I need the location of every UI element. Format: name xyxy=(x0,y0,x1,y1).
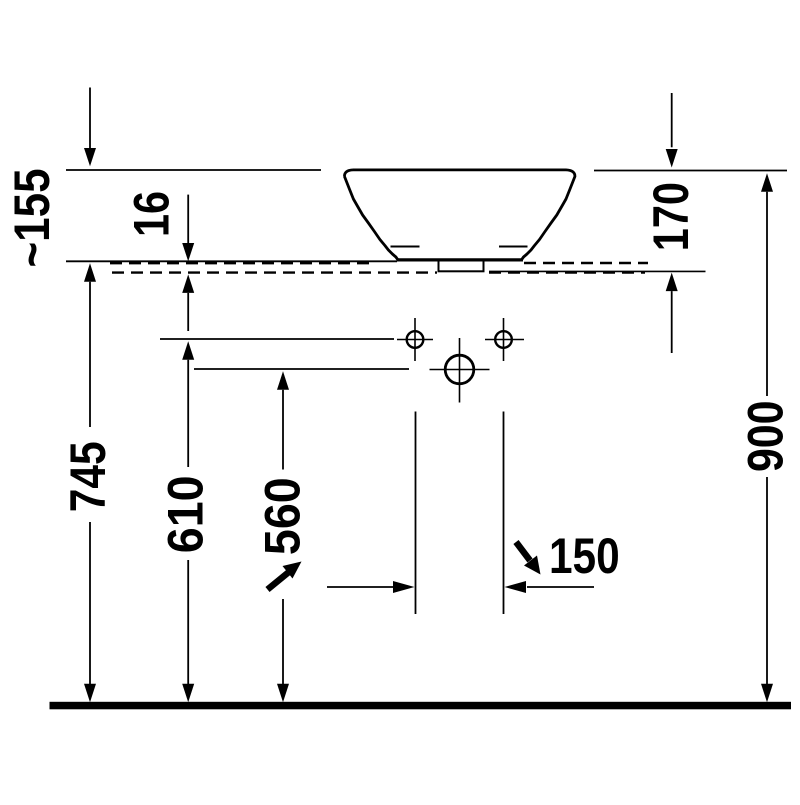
arrowhead 610 up xyxy=(182,341,194,360)
countertop line left xyxy=(66,260,397,262)
dim 745 line lower xyxy=(89,522,91,684)
dim 150 right shaft xyxy=(527,586,594,588)
arrowhead 900 down at floor xyxy=(761,684,773,702)
dim 16 lower outside line xyxy=(187,293,189,331)
dashed countertop top right xyxy=(524,262,648,264)
svg-text:745: 745 xyxy=(60,441,116,512)
dim 560 line upper xyxy=(282,390,284,470)
svg-text:900: 900 xyxy=(738,401,794,472)
dim 170 line upper xyxy=(671,93,673,147)
dim 900 line lower xyxy=(766,477,768,684)
610 reference line xyxy=(160,338,394,340)
rim extension line left xyxy=(66,169,321,171)
large drain hole circle xyxy=(445,355,474,384)
dim 610 line upper xyxy=(187,360,189,467)
drain fitting rectangle xyxy=(439,260,484,271)
pointer arrow near 560 xyxy=(268,562,302,590)
dim 150 left shaft xyxy=(327,586,394,588)
faucet hole right cross xyxy=(485,339,524,341)
pointer arrow near 150 xyxy=(516,542,541,575)
arrowhead ~155 down xyxy=(84,148,96,166)
dim ~155 line xyxy=(89,88,91,149)
arrowhead 16 outside up xyxy=(182,274,194,293)
washbasin inner foot line left xyxy=(391,246,420,248)
svg-text:170: 170 xyxy=(642,182,699,251)
dashed countertop top left xyxy=(110,262,376,264)
floor line xyxy=(50,702,792,710)
dim 900 line upper xyxy=(766,192,768,396)
faucet hole right circle xyxy=(495,331,512,348)
large drain hole cross xyxy=(430,369,490,371)
dim 610 line lower xyxy=(187,560,189,684)
arrowhead 16 down xyxy=(182,243,194,261)
560 reference line xyxy=(194,368,409,370)
svg-text:560: 560 xyxy=(255,477,311,555)
rim extension line right xyxy=(594,170,787,172)
dim 16 line xyxy=(187,195,189,243)
arrowhead 150 right xyxy=(393,581,415,593)
arrowhead 560 up xyxy=(277,371,289,390)
arrowhead 170 down xyxy=(666,149,678,168)
supply line left xyxy=(415,412,417,615)
dashed countertop bottom right xyxy=(489,271,645,273)
dashed countertop bottom left xyxy=(112,271,437,273)
svg-text:610: 610 xyxy=(158,475,214,553)
washbasin inner foot line right xyxy=(499,246,528,248)
arrowhead 745 up at counter xyxy=(84,263,96,282)
faucet hole left cross xyxy=(397,339,433,341)
arrowhead 560 down at floor xyxy=(277,684,289,702)
supply line right xyxy=(503,412,505,615)
dim 170 line lower xyxy=(671,291,673,353)
washbasin bottom xyxy=(397,258,524,261)
faucet hole left circle xyxy=(407,331,424,348)
washbasin outline xyxy=(344,170,574,260)
dim 560 line lower xyxy=(282,599,284,684)
arrowhead 900 up xyxy=(761,173,773,192)
170 lower reference line xyxy=(489,270,706,272)
svg-text:150: 150 xyxy=(549,528,620,584)
svg-text:16: 16 xyxy=(123,191,180,237)
arrowhead 745 down at floor xyxy=(84,684,96,702)
arrowhead 610 down at floor xyxy=(182,684,194,702)
arrowhead 150 left xyxy=(505,581,527,593)
arrowhead 170 up xyxy=(666,273,678,292)
dim 745 line upper xyxy=(89,282,91,427)
svg-text:~155: ~155 xyxy=(3,168,59,267)
